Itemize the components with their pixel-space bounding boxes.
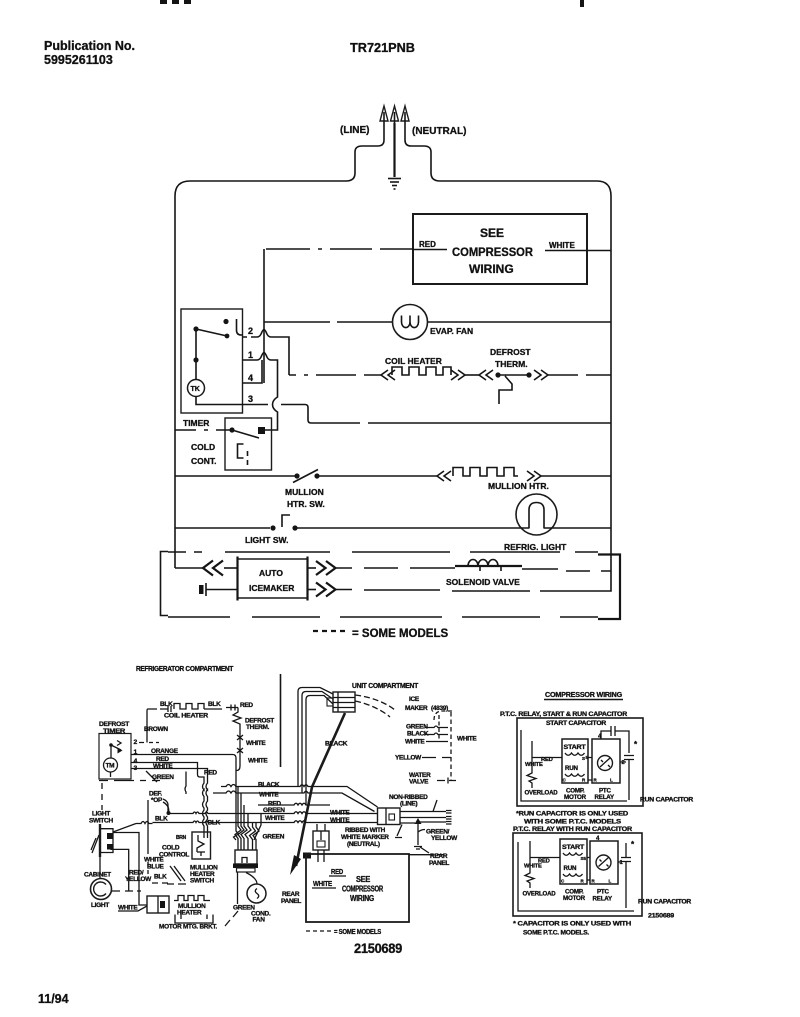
wire yellow stub: [422, 757, 451, 759]
svg-text:BLACK: BLACK: [258, 782, 280, 789]
lamp cabinet light: [91, 857, 112, 900]
svg-text:OVERLOAD: OVERLOAD: [525, 790, 559, 797]
svg-text:CONT.: CONT.: [191, 456, 217, 466]
svg-text:TIMER: TIMER: [103, 728, 125, 735]
resistor coil heater: [392, 367, 451, 375]
svg-text:AUTO: AUTO: [259, 568, 283, 578]
wire compressor to fan: [238, 873, 258, 905]
svg-text:YELLOW: YELLOW: [395, 755, 422, 762]
wire mullion row: [175, 475, 295, 477]
svg-text:SEE: SEE: [480, 226, 504, 240]
defrost timer motor TM: [104, 758, 118, 772]
wire compressor drops: [235, 787, 259, 851]
svg-text:2150689: 2150689: [648, 913, 675, 920]
terminal arrow NEUTRAL: [401, 106, 409, 123]
wire white red drop 2: [530, 841, 621, 880]
wire brown drop: [147, 709, 148, 743]
relay ptc 1: [586, 733, 625, 783]
svg-text:TM: TM: [106, 763, 115, 770]
svg-text:COIL HEATER: COIL HEATER: [385, 356, 442, 366]
capacitor run 2: [621, 840, 635, 908]
svg-text:5: 5: [584, 856, 587, 861]
svg-text:GREEN: GREEN: [406, 724, 428, 731]
svg-text:2150689: 2150689: [354, 941, 402, 956]
wire switch branch down2: [111, 849, 129, 891]
svg-text:(NEUTRAL): (NEUTRAL): [347, 841, 380, 848]
timer internal wires: [196, 329, 243, 405]
timer T1 box: [181, 309, 243, 413]
svg-text:TK: TK: [191, 386, 200, 393]
svg-text:REFRIG. LIGHT: REFRIG. LIGHT: [504, 542, 567, 552]
svg-text:WHITE: WHITE: [313, 879, 332, 888]
wire bus row green: [168, 812, 378, 814]
switch light cabinet: [91, 824, 113, 857]
svg-text:START: START: [562, 844, 584, 851]
svg-text:2: 2: [622, 760, 625, 766]
wire mini red row: [131, 763, 204, 839]
svg-text:BLK: BLK: [208, 820, 221, 827]
svg-text:YELLOW: YELLOW: [431, 835, 458, 842]
junction dot green row: [167, 811, 171, 815]
wire plug out top: [400, 800, 452, 813]
svg-text:SEE: SEE: [356, 875, 371, 884]
svg-text:MOTOR MTG. BRKT.: MOTOR MTG. BRKT.: [159, 924, 217, 931]
legend dashes: [313, 630, 345, 632]
wire contact1 crossover: [243, 353, 278, 431]
svg-text:RED: RED: [538, 859, 550, 865]
wire bundle line2: [302, 692, 333, 794]
switch light sw: [270, 515, 297, 531]
wire contact2 crossover: [243, 330, 290, 376]
svg-text:RUN CAPACITOR: RUN CAPACITOR: [640, 797, 694, 804]
svg-text:WHITE: WHITE: [405, 739, 425, 746]
wire timer dashed drop: [101, 783, 103, 810]
svg-text:LIGHT: LIGHT: [91, 902, 109, 909]
svg-text:5995261103: 5995261103: [44, 53, 113, 67]
svg-text:(LINE): (LINE): [400, 801, 417, 808]
svg-text:RED: RED: [541, 757, 553, 763]
wire evap fan row: [264, 321, 611, 323]
svg-text:DEFROST: DEFROST: [99, 721, 130, 728]
wire red stub: [329, 875, 346, 877]
motor evap fan M1: [393, 305, 428, 340]
wire gy hook: [418, 830, 425, 833]
svg-text:TIMER: TIMER: [183, 418, 209, 428]
svg-text:MULLION: MULLION: [285, 487, 324, 497]
svg-text:= SOME MODELS: = SOME MODELS: [334, 929, 382, 936]
wire white out: [545, 250, 611, 252]
svg-text:GREEN: GREEN: [152, 774, 174, 781]
solenoid valve coil L1: [455, 560, 522, 572]
wire vertical branch: [263, 249, 265, 383]
svg-text:4: 4: [134, 758, 138, 765]
wire white cab underline: [118, 906, 147, 911]
svg-text:REFRIGERATOR COMPARTMENT: REFRIGERATOR COMPARTMENT: [136, 666, 234, 673]
wire green dash row: [99, 771, 160, 782]
svg-text:1: 1: [248, 350, 253, 360]
svg-text:L: L: [610, 778, 613, 783]
wire light row right: [552, 527, 611, 529]
wire bus row white: [213, 791, 375, 812]
underline title: [544, 699, 623, 701]
svg-text:P.T.C. RELAY WITH RUN CAPACITO: P.T.C. RELAY WITH RUN CAPACITOR: [513, 826, 633, 833]
wire icemaker curl: [434, 711, 452, 720]
svg-text:OVERLOAD: OVERLOAD: [523, 891, 557, 898]
bracket models right: [598, 555, 620, 620]
wire contact3 row: [243, 405, 612, 424]
wire light to lamp: [295, 527, 521, 529]
svg-text:R: R: [582, 778, 586, 783]
wire wb dashes: [148, 862, 168, 883]
svg-text:3: 3: [248, 394, 253, 404]
wire switch to blk row: [113, 822, 153, 833]
svg-text:ICEMAKER: ICEMAKER: [249, 583, 294, 593]
wire black diagonal: [296, 713, 345, 866]
svg-text:R: R: [581, 879, 585, 884]
wire white red drop 1: [532, 741, 626, 780]
ground symbol: [388, 179, 401, 190]
svg-text:C: C: [561, 879, 565, 884]
svg-text:MOTOR: MOTOR: [563, 895, 586, 902]
svg-text:BLK: BLK: [154, 874, 167, 881]
defrost timer box: [99, 734, 131, 780]
svg-text:RED: RED: [419, 240, 436, 249]
svg-text:COMPRESSOR: COMPRESSOR: [452, 245, 533, 259]
wire bundle line3: [306, 696, 333, 806]
wire green yellow stem: [414, 820, 429, 853]
svg-text:WHITE: WHITE: [153, 763, 173, 770]
arrow mullion left: [437, 471, 451, 481]
wire contact4 stub: [243, 360, 263, 383]
icemaker box: [238, 557, 308, 601]
wire red dash-dot feed: [266, 248, 447, 251]
arrow rear panel: [290, 855, 301, 875]
wire icemaker feed: [175, 567, 203, 569]
box ptc relay 1: [517, 718, 643, 806]
wire icemaker vertical dashed1: [438, 715, 440, 742]
thermostat defrost: [495, 372, 531, 404]
lamp refrig light: [516, 494, 557, 535]
svg-text:START: START: [564, 744, 586, 751]
wire white stub: [312, 887, 336, 889]
svg-text:MOTOR: MOTOR: [564, 794, 587, 801]
svg-text:START CAPACITOR: START CAPACITOR: [546, 720, 607, 727]
wire plug out bottom: [400, 822, 452, 825]
terminal arrow LINE: [380, 106, 388, 123]
wire icemaker vertical dashed2: [450, 712, 452, 781]
cold control box: [225, 418, 272, 470]
svg-text:WHITE: WHITE: [248, 758, 268, 765]
arrow icemaker out top: [308, 567, 317, 569]
svg-text:COMPRESSOR: COMPRESSOR: [342, 885, 383, 894]
wire plug into box: [318, 850, 324, 862]
wire second row dashes: [336, 590, 601, 592]
wire icemaker dashed feeds: [355, 695, 395, 710]
box see compressor wiring: [306, 854, 409, 922]
wire plug drops to box: [317, 824, 325, 831]
resistor mullion htr: [453, 468, 518, 477]
svg-text:(LINE): (LINE): [340, 125, 369, 136]
connector mullion block: [147, 896, 169, 913]
terminal arrow ground: [391, 106, 399, 123]
compressor terminal block: [233, 850, 258, 872]
wire enclosure left/top edge: [175, 181, 346, 568]
wire bus row white2: [153, 821, 378, 823]
svg-text:RUN: RUN: [564, 865, 578, 872]
svg-text:*OP: *OP: [151, 797, 163, 804]
connector star marks: [237, 735, 243, 753]
svg-text:C: C: [563, 778, 567, 783]
wire bus row black: [221, 785, 378, 808]
svg-text:MULLION HTR.: MULLION HTR.: [488, 481, 549, 491]
wire def hook: [163, 799, 168, 813]
wire cab light dashdot: [112, 890, 141, 892]
switch mullion heater mini: [167, 866, 186, 884]
bracket motor mtg: [175, 915, 213, 924]
wire bundle line1: [298, 688, 333, 787]
wire stray vertical: [185, 772, 186, 795]
svg-text:4: 4: [248, 373, 253, 383]
wire bus row red: [258, 803, 330, 805]
svg-text:DEFROST: DEFROST: [490, 347, 531, 357]
svg-text:RELAY: RELAY: [595, 794, 615, 801]
svg-text:BLACK: BLACK: [325, 741, 348, 748]
compressor box U100: [413, 214, 587, 284]
wire cold control feed dashdot: [175, 429, 230, 431]
wire solenoid row dashes: [336, 567, 455, 569]
timer contact dots: [193, 319, 229, 363]
svg-text:WHITE: WHITE: [330, 810, 350, 817]
svg-text:SWITCH: SWITCH: [190, 878, 214, 885]
G_BOTTOMRIGHT: [500, 692, 694, 937]
svg-text:WHITE: WHITE: [330, 817, 350, 824]
svg-text:VALVE: VALVE: [409, 779, 429, 786]
svg-text:*RUN CAPACITOR IS ONLY USED: *RUN CAPACITOR IS ONLY USED: [516, 811, 629, 818]
scan artifact marks top edge: [160, 0, 167, 4]
overload 2: [525, 871, 534, 888]
wire ribbed neutral: [395, 825, 402, 838]
timer contact tick: [237, 319, 243, 335]
arrow right coil heater: [451, 370, 465, 380]
svg-text:ICE: ICE: [409, 696, 420, 703]
motor comp 1: [562, 739, 588, 783]
svg-text:2: 2: [134, 739, 138, 746]
svg-text:WIRING: WIRING: [469, 262, 514, 276]
plug compressor box: [313, 831, 329, 850]
wire mullion right: [541, 475, 611, 477]
svg-text:P.T.C. RELAY, START & RUN CAPA: P.T.C. RELAY, START & RUN CAPACITOR: [500, 711, 628, 718]
legend some models small: [306, 930, 331, 932]
wire mullion to heater: [317, 475, 437, 477]
svg-text:THERM.: THERM.: [246, 724, 270, 731]
svg-text:L: L: [609, 879, 612, 884]
dashed models box bottom: [168, 616, 598, 618]
arrow defrost therm left: [479, 370, 493, 380]
timer switch blade: [196, 329, 227, 336]
wire to defrost therm: [465, 374, 479, 376]
svg-text:CONTROL: CONTROL: [159, 852, 189, 859]
svg-text:*: *: [631, 840, 635, 849]
wire switch branch down1: [113, 833, 147, 906]
svg-text:PANEL: PANEL: [429, 860, 449, 867]
wire icemaker feed2: [224, 567, 237, 569]
G_BOTTOMLEFT: [84, 666, 477, 956]
wire compartment divider: [280, 674, 282, 767]
svg-text:FAN: FAN: [253, 917, 266, 924]
connector coil-red: [226, 705, 238, 711]
arrow gy stem top: [415, 818, 422, 824]
svg-text:MAKER: MAKER: [405, 705, 428, 712]
svg-text:Publication No.: Publication No.: [44, 39, 135, 53]
capacitor start C1: [601, 726, 629, 753]
svg-text:WHITE MARKER: WHITE MARKER: [341, 834, 389, 841]
resistor mullion heater mini: [174, 896, 210, 901]
overload 1: [527, 771, 536, 788]
svg-text:RED: RED: [331, 867, 344, 876]
svg-text:YELLOW: YELLOW: [125, 876, 152, 883]
svg-text:RIBBED WITH: RIBBED WITH: [345, 827, 386, 834]
svg-text:* CAPACITOR IS ONLY USED WITH: * CAPACITOR IS ONLY USED WITH: [513, 921, 632, 928]
wire light row: [175, 527, 270, 529]
svg-text:ORANGE: ORANGE: [151, 748, 179, 755]
box ptc relay 2: [513, 833, 642, 916]
wire mini orange row: [131, 755, 239, 841]
svg-text:*: *: [634, 740, 638, 749]
wire green dash diagonal: [225, 911, 238, 926]
svg-text:RED: RED: [240, 702, 253, 709]
bracket models left: [161, 552, 169, 616]
svg-text:RED: RED: [156, 756, 169, 763]
wire mini contact2 dashdot: [139, 742, 159, 744]
svg-text:LIGHT: LIGHT: [92, 811, 110, 818]
timer motor TK: [188, 380, 205, 397]
G_HEADER: [44, 0, 584, 67]
wire water valve stub: [437, 778, 456, 784]
wire solenoid right: [522, 569, 611, 571]
thermostat mini defrost: [233, 708, 241, 771]
svg-text:RED: RED: [204, 770, 217, 777]
svg-text:RUN: RUN: [565, 765, 579, 772]
blob box corner: [303, 853, 311, 859]
svg-text:HTR. SW.: HTR. SW.: [287, 499, 325, 509]
wire box top extension: [409, 854, 444, 856]
cold control mini box: [192, 832, 211, 859]
plug symbol: [199, 583, 237, 596]
wire plug out mid: [400, 817, 452, 820]
svg-text:BRN: BRN: [176, 835, 187, 841]
svg-text:BLK: BLK: [208, 701, 221, 708]
svg-text:PANEL: PANEL: [281, 898, 301, 905]
wire defrost row right: [548, 374, 611, 376]
svg-text:COIL HEATER: COIL HEATER: [164, 713, 208, 720]
svg-text:11/94: 11/94: [38, 992, 69, 1006]
wire green drop diagonal: [254, 814, 261, 841]
svg-text:= SOME MODELS: = SOME MODELS: [352, 628, 448, 640]
capacitor run 1: [624, 740, 638, 800]
arrow left coil heater: [381, 370, 395, 380]
svg-text:UNIT COMPARTMENT: UNIT COMPARTMENT: [352, 683, 419, 690]
svg-text:WHITE: WHITE: [549, 241, 575, 250]
svg-text:WHITE: WHITE: [246, 740, 266, 747]
wire line entry: [346, 123, 384, 181]
svg-text:WITH SOME P.T.C. MODELS: WITH SOME P.T.C. MODELS: [524, 819, 621, 826]
svg-text:BLUE: BLUE: [147, 864, 164, 871]
svg-text:THERM.: THERM.: [495, 359, 528, 369]
wire enclosure right/top edge: [440, 181, 611, 591]
wire white blue vertical: [147, 800, 149, 854]
motor cond fan: [247, 884, 266, 903]
svg-text:WHITE: WHITE: [457, 736, 477, 743]
svg-text:PTC: PTC: [597, 889, 610, 896]
svg-text:SWITCH: SWITCH: [89, 818, 113, 825]
svg-text:RELAY: RELAY: [593, 896, 613, 903]
inner border echo 1: [521, 730, 627, 801]
motor comp 2: [560, 839, 587, 884]
svg-text:WHITE: WHITE: [265, 815, 285, 822]
svg-text:GREEN: GREEN: [263, 834, 285, 841]
svg-text:R: R: [594, 778, 598, 783]
svg-text:(NEUTRAL): (NEUTRAL): [412, 126, 466, 137]
arrow defrost therm right: [534, 370, 548, 380]
svg-text:BLK: BLK: [155, 816, 168, 823]
plug line-neutral: [378, 808, 401, 825]
relay ptc 2: [584, 835, 624, 884]
arrow icemaker left: [203, 561, 223, 576]
G_MAIN: [161, 181, 621, 640]
wire ground stem: [393, 123, 395, 177]
wire mini white row: [131, 769, 208, 839]
svg-text:SOME P.T.C. MODELS.: SOME P.T.C. MODELS.: [523, 930, 590, 937]
svg-text:TR721PNB: TR721PNB: [350, 41, 415, 55]
wire coil heater row dashdot: [289, 374, 381, 376]
svg-text:2: 2: [248, 326, 253, 336]
G_POWER: [340, 106, 466, 189]
wire ice stubs: [425, 726, 448, 742]
inner border echo 2: [518, 842, 634, 911]
switch cold control: [229, 427, 265, 465]
svg-text:BROWN: BROWN: [144, 726, 168, 733]
arrow mullion right: [527, 471, 541, 481]
svg-text:COLD: COLD: [191, 442, 215, 452]
wire neutral entry: [405, 123, 440, 181]
G_FOOTER: [38, 992, 69, 1006]
svg-text:SOLENOID VALVE: SOLENOID VALVE: [446, 577, 520, 587]
arrow icemaker out bottom: [308, 589, 317, 591]
svg-text:REAR: REAR: [282, 891, 300, 898]
connector block unit: [327, 692, 355, 712]
svg-text:LIGHT SW.: LIGHT SW.: [245, 535, 288, 545]
svg-text:EVAP. FAN: EVAP. FAN: [430, 326, 473, 336]
svg-text:R: R: [592, 879, 596, 884]
svg-text:RUN CAPACITOR: RUN CAPACITOR: [638, 899, 692, 906]
dashed models box top: [168, 551, 598, 553]
svg-text:WIRING: WIRING: [350, 894, 374, 903]
switch mullion htr sw: [293, 470, 320, 483]
resistor mini coil heater: [148, 704, 222, 713]
svg-text:COLD: COLD: [162, 845, 180, 852]
svg-text:CABINET: CABINET: [84, 872, 111, 879]
svg-text:COMPRESSOR WIRING: COMPRESSOR WIRING: [545, 692, 623, 699]
svg-text:BLK: BLK: [160, 701, 173, 708]
defrost timer contacts: [109, 741, 122, 778]
wire def to green row: [163, 802, 169, 813]
